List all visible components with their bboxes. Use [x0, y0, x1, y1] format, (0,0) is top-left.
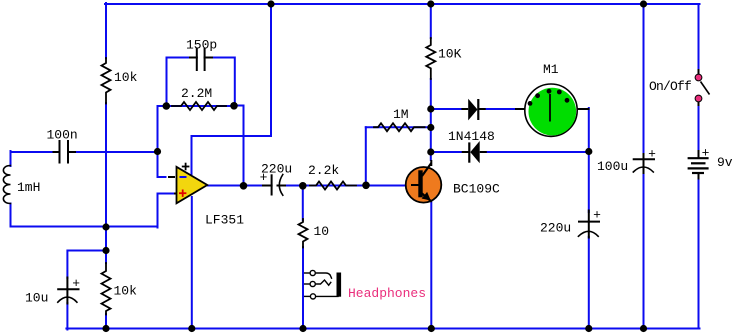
wire D2 to meter-right node	[486, 151, 589, 153]
wire 10K bottom to transistor collector node	[430, 79, 432, 160]
resistor 2.2k	[310, 182, 356, 190]
node 2.2k left	[299, 182, 307, 190]
wire 2.2M left jog down to inverting input	[158, 106, 168, 177]
wire op-amp output to 220u	[208, 185, 264, 187]
svg-text:LF351: LF351	[205, 213, 244, 228]
node collector-D2	[427, 148, 434, 155]
wire 150p right branch	[212, 58, 235, 107]
node 2.2M left	[163, 102, 171, 110]
wire meter right down to node	[588, 108, 590, 152]
node base	[362, 182, 370, 190]
wire under 1M	[366, 126, 431, 128]
meter M1	[515, 84, 590, 136]
transistor Q1 BC109C	[406, 160, 442, 203]
wire left vertical middle (10k to node)	[105, 103, 107, 263]
wire emitter to ground rail	[430, 202, 432, 330]
capacitor 100n	[54, 141, 76, 163]
wire node to 10u capacitor	[67, 251, 106, 279]
resistor 10k top-left	[102, 58, 111, 104]
capacitor 10u (polarized, vertical)	[58, 278, 79, 304]
wire rail drop x643 to 100u	[643, 3, 645, 156]
headphone jack J1	[304, 270, 341, 299]
wire 100n to inverting node	[75, 151, 159, 153]
resistor 10 ohm	[299, 219, 308, 248]
diode D2 1N4148	[462, 141, 487, 163]
capacitor 100u (polarized, vertical)	[633, 154, 654, 173]
svg-text:On/Off: On/Off	[649, 79, 691, 94]
node top rail x431	[427, 0, 434, 7]
wire rail drop x271 to op-amp supply	[192, 3, 272, 174]
wire 100u to ground rail	[643, 172, 645, 330]
wire left vertical lower (10k2 to ground rail)	[105, 314, 107, 329]
wire 220u right to ground rail	[588, 237, 590, 330]
wire coil bottom to horizontal run	[11, 204, 158, 227]
wire battery to ground rail	[697, 179, 699, 329]
resistor 10K middle	[426, 38, 435, 79]
switch On/Off	[695, 69, 709, 106]
node 2.2M right	[230, 102, 238, 110]
svg-text:2.2k: 2.2k	[308, 163, 339, 178]
capacitor 220u output (polarized, horizontal)	[263, 175, 285, 196]
capacitor 150p	[190, 49, 212, 70]
wire op-amp negative supply to ground rail	[191, 197, 193, 329]
svg-text:Headphones: Headphones	[348, 286, 426, 301]
svg-text:10K: 10K	[438, 47, 462, 62]
svg-text:150p: 150p	[186, 38, 217, 53]
svg-text:M1: M1	[543, 62, 559, 77]
battery B1 9V	[688, 150, 709, 180]
node ground x643	[640, 325, 647, 332]
svg-text:1M: 1M	[393, 107, 409, 122]
svg-text:100u: 100u	[597, 159, 628, 174]
svg-text:100n: 100n	[47, 128, 78, 143]
node top rail x271	[267, 0, 274, 7]
wire output node down to 10 ohm	[302, 186, 304, 221]
wire collector node to diode D1	[431, 108, 462, 110]
resistor 10k bottom-left	[102, 263, 111, 315]
wire rail drop x431 to 10K	[430, 3, 432, 38]
svg-text:10: 10	[314, 224, 330, 239]
wire 10u to ground rail	[66, 303, 68, 330]
node op-amp output	[240, 182, 248, 190]
wire 150p left branch	[167, 58, 191, 108]
resistor 2.2M	[172, 102, 226, 110]
svg-text:+: +	[72, 276, 80, 291]
svg-text:9v: 9v	[717, 155, 733, 170]
svg-text:220u: 220u	[540, 221, 571, 236]
wire 2.2k to transistor base	[366, 185, 412, 187]
inductor 1mH	[3, 166, 10, 204]
wire D1 to meter	[485, 108, 516, 110]
svg-text:10k: 10k	[114, 284, 138, 299]
wire rise to op-amp plus input	[158, 194, 175, 228]
node collector-1M	[427, 124, 434, 131]
svg-text:1N4148: 1N4148	[448, 129, 495, 144]
svg-text:+: +	[593, 208, 601, 223]
wire ground bottom rail	[66, 328, 699, 330]
wire top supply rail	[105, 3, 700, 5]
wire input left to 100n	[11, 151, 55, 153]
node ground x106	[102, 325, 109, 332]
wire under 2.2k	[303, 185, 366, 187]
node ground x191	[188, 325, 195, 332]
wire 100n node down-left to coil top	[10, 151, 12, 166]
svg-text:10u: 10u	[25, 291, 48, 306]
svg-text:+: +	[702, 146, 710, 161]
node ground x589	[585, 325, 592, 332]
node meter right	[585, 148, 592, 155]
node ground x303	[299, 325, 306, 332]
svg-text:BC109C: BC109C	[453, 182, 500, 197]
wire left vertical upper (rail to R 10k)	[105, 3, 107, 58]
wire 2.2M right jog down to output	[234, 106, 244, 187]
node coil junction	[102, 223, 109, 230]
node top rail x643	[640, 0, 647, 7]
wire 1M left vertical	[365, 127, 367, 186]
wire 10 ohm to jack and ground	[302, 247, 304, 330]
node inverting input	[154, 148, 161, 155]
wire collector node to diode D2	[431, 151, 462, 153]
op-amp U1 LF351	[168, 163, 207, 204]
svg-text:1mH: 1mH	[17, 180, 40, 195]
node ground x431	[428, 325, 435, 332]
wire under 2.2M	[166, 105, 234, 107]
svg-text:+: +	[260, 170, 268, 185]
wire 220u to 2.2k node	[284, 185, 304, 187]
capacitor 220u right (polarized, vertical)	[578, 211, 599, 238]
wire switch to battery	[698, 103, 700, 151]
svg-text:+: +	[648, 146, 656, 161]
wire rail corner to switch	[699, 4, 700, 70]
resistor 1M	[374, 123, 425, 131]
wire node down to 220u right	[588, 152, 590, 212]
node 10u branch	[102, 247, 109, 254]
diode D1 (to meter)	[461, 99, 485, 121]
svg-text:2.2M: 2.2M	[181, 86, 212, 101]
svg-text:10k: 10k	[114, 70, 138, 85]
node collector-D1	[427, 105, 434, 112]
